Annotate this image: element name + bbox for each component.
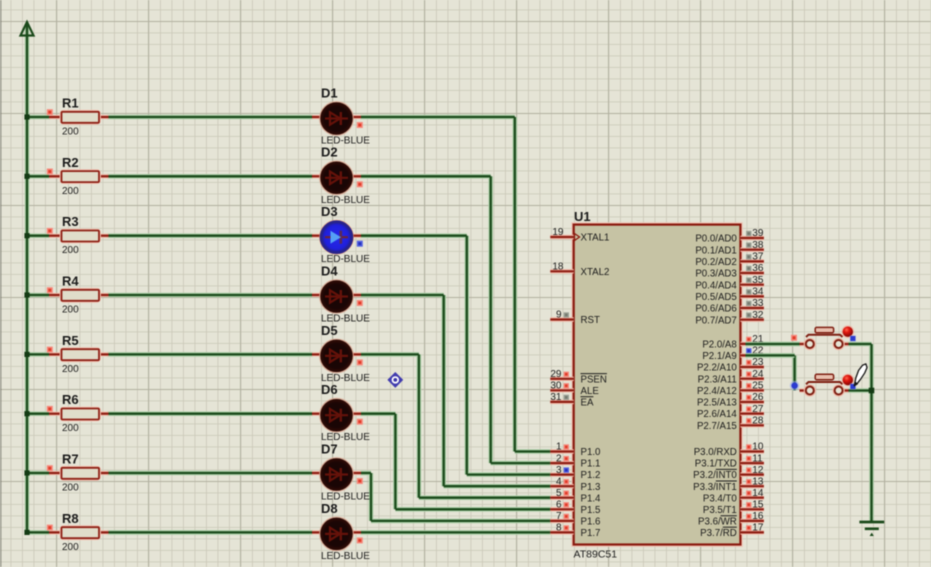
svg-text:R5: R5 bbox=[62, 333, 79, 348]
svg-text:XTAL2: XTAL2 bbox=[581, 267, 610, 278]
svg-text:P2.1/A9: P2.1/A9 bbox=[702, 351, 736, 362]
svg-text:P1.7: P1.7 bbox=[581, 528, 601, 539]
svg-text:P1.6: P1.6 bbox=[581, 517, 601, 528]
svg-text:ALE: ALE bbox=[581, 386, 600, 397]
svg-text:37: 37 bbox=[752, 252, 764, 263]
svg-text:10: 10 bbox=[752, 442, 764, 453]
svg-text:2: 2 bbox=[556, 453, 562, 464]
svg-text:P0.2/AD2: P0.2/AD2 bbox=[695, 257, 736, 268]
svg-text:17: 17 bbox=[752, 523, 764, 534]
svg-text:P3.5/T1: P3.5/T1 bbox=[703, 505, 737, 516]
svg-text:P1.1: P1.1 bbox=[581, 459, 601, 470]
svg-text:P0.7/AD7: P0.7/AD7 bbox=[695, 315, 736, 326]
svg-text:23: 23 bbox=[752, 357, 764, 368]
svg-text:R8: R8 bbox=[62, 511, 79, 526]
svg-text:27: 27 bbox=[752, 404, 764, 415]
svg-text:200: 200 bbox=[62, 423, 79, 434]
svg-text:12: 12 bbox=[752, 465, 764, 476]
svg-text:39: 39 bbox=[752, 228, 764, 239]
svg-text:6: 6 bbox=[556, 500, 562, 511]
svg-text:D7: D7 bbox=[321, 441, 338, 456]
svg-text:P1.2: P1.2 bbox=[581, 470, 601, 481]
svg-text:24: 24 bbox=[752, 369, 764, 380]
svg-text:200: 200 bbox=[62, 364, 79, 375]
svg-text:P3.4/T0: P3.4/T0 bbox=[703, 493, 738, 504]
svg-text:R1: R1 bbox=[62, 96, 79, 111]
svg-text:38: 38 bbox=[752, 240, 764, 251]
svg-text:19: 19 bbox=[552, 227, 564, 238]
svg-text:D8: D8 bbox=[321, 501, 338, 516]
svg-text:35: 35 bbox=[752, 275, 764, 286]
svg-text:36: 36 bbox=[752, 263, 764, 274]
svg-text:P2.4/A12: P2.4/A12 bbox=[697, 386, 737, 397]
svg-text:P3.7/RD: P3.7/RD bbox=[700, 528, 737, 539]
svg-text:P3.1/TXD: P3.1/TXD bbox=[695, 459, 737, 470]
svg-text:9: 9 bbox=[556, 310, 562, 321]
svg-text:5: 5 bbox=[556, 488, 562, 499]
svg-text:16: 16 bbox=[752, 511, 764, 522]
svg-text:200: 200 bbox=[62, 483, 79, 494]
svg-text:R3: R3 bbox=[62, 214, 79, 229]
svg-text:D6: D6 bbox=[321, 382, 338, 397]
svg-text:R2: R2 bbox=[62, 155, 79, 170]
svg-text:D5: D5 bbox=[321, 323, 338, 338]
svg-text:28: 28 bbox=[752, 416, 764, 427]
svg-text:33: 33 bbox=[752, 298, 764, 309]
svg-text:P1.4: P1.4 bbox=[581, 493, 602, 504]
svg-text:P2.6/A14: P2.6/A14 bbox=[697, 409, 737, 420]
svg-text:1: 1 bbox=[556, 442, 562, 453]
svg-text:200: 200 bbox=[62, 245, 79, 256]
svg-text:D1: D1 bbox=[321, 85, 338, 100]
svg-text:P0.0/AD0: P0.0/AD0 bbox=[695, 234, 737, 245]
svg-text:RST: RST bbox=[581, 315, 600, 326]
svg-text:R4: R4 bbox=[62, 274, 79, 289]
svg-text:P0.5/AD5: P0.5/AD5 bbox=[695, 292, 736, 303]
svg-text:14: 14 bbox=[752, 488, 764, 499]
svg-text:P0.1/AD1: P0.1/AD1 bbox=[695, 245, 736, 256]
svg-text:U1: U1 bbox=[574, 209, 591, 224]
svg-text:P2.3/A11: P2.3/A11 bbox=[698, 374, 737, 385]
svg-text:7: 7 bbox=[556, 511, 562, 522]
svg-text:200: 200 bbox=[62, 542, 79, 553]
svg-text:LED-BLUE: LED-BLUE bbox=[321, 551, 370, 562]
svg-text:P0.3/AD3: P0.3/AD3 bbox=[695, 269, 736, 280]
svg-text:8: 8 bbox=[556, 523, 562, 534]
svg-text:P0.4/AD4: P0.4/AD4 bbox=[695, 280, 737, 291]
svg-text:18: 18 bbox=[552, 262, 564, 273]
svg-text:PSEN: PSEN bbox=[581, 374, 607, 385]
svg-text:4: 4 bbox=[556, 476, 562, 487]
svg-text:15: 15 bbox=[752, 500, 764, 511]
svg-text:200: 200 bbox=[62, 305, 79, 316]
svg-text:29: 29 bbox=[550, 369, 562, 380]
svg-text:D4: D4 bbox=[321, 263, 338, 278]
svg-text:P2.2/A10: P2.2/A10 bbox=[697, 363, 737, 374]
svg-text:R7: R7 bbox=[62, 452, 79, 467]
svg-text:P3.2/INT0: P3.2/INT0 bbox=[693, 470, 737, 481]
svg-text:26: 26 bbox=[752, 392, 764, 403]
svg-text:200: 200 bbox=[62, 186, 79, 197]
svg-text:P2.5/A13: P2.5/A13 bbox=[697, 398, 737, 409]
svg-text:31: 31 bbox=[550, 392, 562, 403]
svg-text:XTAL1: XTAL1 bbox=[581, 233, 610, 244]
svg-text:30: 30 bbox=[550, 381, 562, 392]
svg-text:P0.6/AD6: P0.6/AD6 bbox=[695, 304, 736, 315]
svg-text:EA: EA bbox=[581, 398, 594, 409]
svg-text:AT89C51: AT89C51 bbox=[574, 549, 618, 561]
svg-text:13: 13 bbox=[752, 476, 764, 487]
svg-text:R6: R6 bbox=[62, 392, 79, 407]
svg-text:25: 25 bbox=[752, 381, 764, 392]
svg-text:D3: D3 bbox=[321, 204, 338, 219]
svg-text:P1.0: P1.0 bbox=[581, 447, 602, 458]
svg-text:P3.0/RXD: P3.0/RXD bbox=[694, 447, 737, 458]
svg-text:P1.5: P1.5 bbox=[581, 505, 601, 516]
svg-text:P1.3: P1.3 bbox=[581, 482, 601, 493]
svg-text:200: 200 bbox=[62, 127, 79, 138]
svg-text:P3.3/INT1: P3.3/INT1 bbox=[693, 482, 737, 493]
svg-text:P2.7/A15: P2.7/A15 bbox=[697, 421, 737, 432]
svg-text:P3.6/WR: P3.6/WR bbox=[698, 517, 737, 528]
svg-text:32: 32 bbox=[752, 310, 764, 321]
svg-text:D2: D2 bbox=[321, 145, 338, 160]
svg-text:11: 11 bbox=[752, 453, 763, 464]
svg-text:3: 3 bbox=[556, 465, 562, 476]
svg-text:34: 34 bbox=[752, 287, 764, 298]
svg-text:P2.0/A8: P2.0/A8 bbox=[702, 340, 736, 351]
